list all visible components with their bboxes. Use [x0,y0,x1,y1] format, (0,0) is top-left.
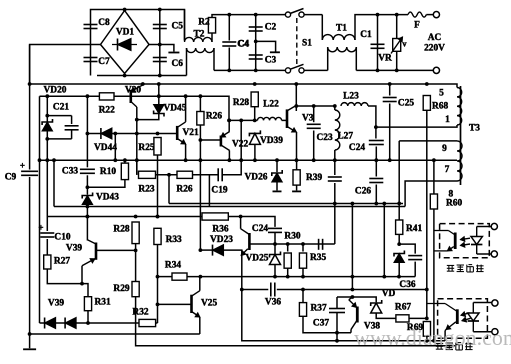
svg-text:VD44: VD44 [94,143,117,153]
svg-text:V36: V36 [265,298,281,308]
svg-text:R39: R39 [306,173,322,183]
wire V25 collector column [199,140,203,252]
wire V38 emitter wire [337,295,376,302]
wire base net to L22 node [131,94,229,120]
wire C26 left to L1 [333,183,337,244]
resistor R36 [202,213,229,235]
wire feed column x39 [38,96,42,323]
svg-text:R10: R10 [100,167,116,177]
inductor L22 [258,100,282,121]
wire C37 block stub to line A [336,333,338,341]
switch S1 link [297,18,312,66]
svg-text:C2: C2 [265,23,277,33]
inductor winding T3 winding 5-1 [457,88,462,126]
wire V3 node line [296,104,336,108]
svg-text:C1: C1 [360,30,372,40]
label pin 9 [442,144,447,154]
inductor T2 [185,30,213,42]
wire R28b to R29 [135,244,137,282]
wire R26 to C19 [193,174,219,176]
svg-text:V39: V39 [48,299,64,309]
optocoupler U1 phototransistor [434,231,455,251]
wire bridge left output to left rail [30,45,101,84]
resistor R26 lower [176,171,192,194]
capacitor on y244 [319,239,323,250]
wire T2 primary top lead [184,10,186,41]
wire V20 emitter to rail [141,84,143,86]
capacitor C3 [249,55,277,66]
wire U2 emitter to line A [444,331,446,341]
resistor R68 [423,95,448,112]
svg-text:C5: C5 [172,22,184,32]
wire C36 bottom [414,262,416,277]
inductor None [187,48,215,53]
wire R37 bottom [303,316,351,332]
wire V22 base [200,139,221,141]
wire L22 left [227,119,257,123]
svg-text:C9: C9 [5,173,17,183]
inductor winding T3 winding 9-7 [457,141,462,181]
svg-text:R41: R41 [406,224,422,234]
wire C10 to R27 [46,239,48,255]
wire VD26 stub [276,182,278,190]
wire R35 stub [301,242,305,251]
capacitor C26 [328,177,372,197]
wire bridge right output [149,43,174,52]
wire C2 C3 branch [255,15,257,71]
wire R39 branch [296,160,298,170]
wire R31 to diode line [86,311,90,325]
fuse F [408,12,433,31]
wire x352 column [351,202,355,290]
wire left vertical rail lower [28,177,32,348]
wire between diodes [56,322,66,324]
wire C24 branch [375,127,377,138]
label pin 7 [445,165,450,175]
wire diode line to R32 [76,322,139,324]
wire C2 C3 midpoint to chassis [254,40,276,52]
varistor VR [378,15,406,71]
svg-text:R33: R33 [166,235,182,245]
svg-text:C3: C3 [265,56,277,66]
wire C25 branch [389,84,391,96]
inductor L23 [341,92,368,106]
wire T3 pin9 lead [399,140,457,142]
wire V21 emitter [184,144,188,162]
svg-text:C33: C33 [62,167,78,177]
wire C26 right branch [375,160,377,176]
svg-text:T2: T2 [194,30,205,40]
wire C1 branch [377,15,379,71]
resistor R27 [44,255,71,270]
svg-text:VD26: VD26 [245,173,268,183]
capacitor C5 [153,22,183,32]
wire V39 emitter drop [81,266,83,284]
svg-text:R27: R27 [54,257,70,267]
wire VD43 to lines [86,205,90,241]
wire V39 collector drop [86,239,88,242]
terminal U2 top [492,300,498,306]
watermark [354,325,511,350]
wire R30 stub [286,242,290,251]
wire rail to T3 pin5 [449,84,457,88]
svg-text:R29: R29 [113,284,129,294]
wire V23 line W2 [242,289,268,291]
wire R35 bottom [302,268,304,276]
svg-text:R23: R23 [138,185,154,195]
svg-text:C37: C37 [313,319,329,329]
resistor R69 [407,321,431,336]
terminal AC line [433,12,439,18]
svg-text:R25: R25 [138,143,154,153]
svg-text:+: + [38,223,43,233]
wire C19 to bus [222,158,243,175]
wire C10 column [46,217,48,232]
wire main positive rail [28,82,449,86]
resistor R10 [100,163,129,180]
transistor V38 [349,300,381,332]
wire bus left drop x54 [52,158,56,206]
wire main bus [40,159,434,161]
wire C37 bottom [335,313,339,335]
wire C33 to VD43 [86,175,88,194]
svg-text:7: 7 [445,165,450,175]
switch S1 top pole [285,9,304,18]
capacitor C [222,40,249,50]
wire R27 to V39 emitter wire [47,269,84,286]
svg-text:VD43: VD43 [96,193,119,203]
svg-text:L23: L23 [343,92,359,102]
wire V38 collector down [350,330,352,333]
wire L3 right [228,215,275,227]
svg-text:C8: C8 [98,18,110,28]
resistor R28 [233,92,258,109]
resistor R23 [138,171,155,194]
resistor R39 [293,169,322,185]
ground left rail [23,348,36,350]
wire S1 to T1 top [304,14,322,16]
capacitor C36 [399,256,422,291]
wire C24 to bus [374,147,378,163]
wire VD25 to wire276 [274,265,276,277]
wire V39 base line [96,249,138,253]
capacitor C8 [84,18,111,28]
wire T2 secondary bottom lead [213,48,215,70]
wire R60 column to opto [433,209,435,341]
capacitor C23 [307,124,333,143]
label 220V [424,44,445,54]
optocoupler U1 led [471,227,482,255]
svg-text:C26: C26 [355,187,371,197]
capacitor C1 [360,30,384,48]
optocoupler U2 phototransistor [427,304,457,331]
capacitor C19 [211,168,227,195]
terminal AC neutral [433,67,439,73]
wire R33 column mid [156,245,160,324]
svg-text:V25: V25 [201,298,217,308]
diode VD44 [94,128,117,153]
wire C23 to bus [312,131,316,163]
svg-text:www.diangon.com: www.diangon.com [354,325,511,350]
wire V3 emitter [295,132,299,162]
wire V23 base wire [248,243,250,245]
svg-text:R67: R67 [395,303,411,313]
terminal U1 top [491,223,497,229]
resistor R26 [197,111,223,125]
bridge rectifier VD1 [101,8,150,78]
terminal U2 bottom [492,329,498,335]
zener diode VD20 [42,119,52,131]
wire long mid line [187,275,415,279]
wire R60 column top [433,160,435,194]
wire VD41 bottom [398,263,400,277]
wire x115 to bus [113,134,117,163]
wire bottom left wire [30,333,200,335]
inductor None [328,47,357,52]
switch S1 bottom pole [285,64,304,73]
inductor winding L27 [335,110,354,150]
resistor R29 [113,281,139,297]
wire V38 emitter up [349,297,353,300]
wire R26 top stub [199,96,201,111]
svg-text:v: v [403,39,407,48]
wire T1 bottom left lead [327,47,329,70]
svg-text:220V: 220V [424,44,445,54]
end stub VD26 [273,190,282,192]
svg-text:VD25: VD25 [246,254,269,264]
wire R37 stub [302,290,304,303]
svg-text:VD20: VD20 [44,85,67,95]
label control 2 (CJK) [436,343,473,350]
svg-text:C10: C10 [54,233,70,243]
wire VD23 to V23 emitter node [224,250,242,256]
diode VD23 [210,235,233,255]
svg-text:R30: R30 [284,232,300,242]
wire C5 C6 branch [158,8,162,78]
svg-text:V21: V21 [183,128,199,138]
wire C33 column [86,96,90,167]
wire low diode line [40,322,45,324]
resistor R67 [395,303,411,322]
svg-text:C21: C21 [53,103,69,113]
capacitor C25 [383,98,415,109]
transistor V3 [287,105,314,132]
wire V21 base line [87,133,101,135]
resistor R25 [138,137,161,155]
wire U2 led bottom to terminal [473,331,492,333]
wire bridge box bottom rail [97,75,187,77]
svg-text:R35: R35 [310,253,326,263]
svg-text:V22: V22 [232,140,248,150]
wire L22 to V3 base [282,119,287,121]
wire W2 right [277,288,429,321]
wire L22 node to bus column [239,119,243,161]
svg-text:V3: V3 [302,114,314,124]
svg-text:R36: R36 [212,225,228,235]
wire C37 top [336,297,338,309]
chassis ground at C3 [270,51,280,53]
label pin 1 [445,115,450,125]
wire y244 [249,243,334,245]
wire V3 collector column [294,84,298,111]
wire pin9 column [397,141,401,205]
wire T1 top right lead [355,13,408,40]
svg-text:R28: R28 [113,225,129,235]
wire L27 to bus [333,150,337,162]
optocoupler U2 light arrows [461,312,471,322]
svg-text:R2: R2 [198,18,210,28]
resistor R60 [430,194,462,210]
transistor V22 [221,132,249,151]
zener diode VD at R41 [394,251,404,263]
wire T2 primary bottom lead [186,48,188,76]
capacitor C37 [313,309,345,329]
svg-text:R68: R68 [432,102,448,112]
wire T2 secondary top lead to R2 [211,33,213,42]
svg-text:VD23: VD23 [210,235,233,245]
wire C25 to bus [388,104,392,163]
wire T1 top left lead [321,15,323,40]
wire C23 branch [313,106,315,122]
wire U2 led top to terminal [473,302,492,304]
wire AC bottom rail left [214,69,288,73]
wire pin1 line [374,125,451,129]
wire V20 base [114,95,131,97]
svg-text:V20: V20 [125,85,141,95]
resistor R31 [84,296,111,311]
capacitor C21 [47,103,78,139]
capacitor C33 [62,167,95,177]
wire R68 column down [426,110,428,318]
zener diode VD25 [270,252,281,265]
capacitor C10 [38,223,70,243]
wire U1 led bottom to terminal [477,253,492,255]
wire R41 column [398,203,400,220]
wire bottom line B [136,345,455,347]
wire V23 collector [240,217,242,229]
svg-text:T3: T3 [469,124,480,134]
svg-text:C4: C4 [238,40,250,50]
wire R23 feed [136,160,138,175]
wire T3 pin7 lead [405,181,457,207]
wire R67 to R69 node [409,317,427,319]
resistor R30 [284,232,301,269]
transistor V23 [241,229,269,264]
wire V22 collector down [228,151,232,163]
label control 1 (CJK) [447,265,484,272]
wire line L3 [47,215,202,219]
zener diode VD43 [82,193,119,205]
wire T3 center tap to bus [432,158,457,162]
svg-text:C7: C7 [98,57,110,67]
svg-text:R28: R28 [233,98,249,108]
resistor R33 [154,228,182,245]
svg-text:C24: C24 [252,224,268,234]
svg-text:R22: R22 [99,105,115,115]
zener diode VD26 [245,170,283,183]
wire R39 stub [296,185,298,190]
wire R30 bottom [287,268,289,276]
wire VD25 top stub [274,244,276,255]
wire x384 column [382,202,386,277]
wire V21 base line right [112,132,177,136]
zener diode VD39 [249,130,283,145]
resistor R37 [299,302,327,316]
svg-text:F: F [414,21,420,31]
wire R25 R33 column upper [156,155,160,218]
wire VD20 column [45,94,49,216]
wire VD23 line [200,249,212,251]
transistor V21 [177,122,199,144]
svg-text:C36: C36 [399,280,415,290]
resistor R32 [132,308,155,327]
svg-text:VD: VD [382,289,396,299]
wire R32 to column [156,322,158,324]
wire R34 line [158,276,173,278]
svg-text:R26: R26 [206,112,222,122]
wire VD26 branch [275,158,279,172]
svg-text:S1: S1 [302,39,312,49]
wire V23 emitter column [240,256,445,343]
inductor T1 [322,24,355,40]
wire bridge box top rail [91,10,185,76]
terminal U1 bottom [491,251,497,257]
svg-text:R26: R26 [176,185,192,195]
wire C26 right to L1 [374,185,378,206]
svg-text:+: + [20,161,25,171]
label pin 5 [439,89,444,99]
capacitor C4 [229,15,249,71]
wire T3 pin1 stub [451,125,457,127]
wire VD bottom to R67 [376,313,396,318]
wire R28 to L22 node [253,107,257,123]
wire V25 base [158,303,192,305]
wire left vertical rail [29,45,31,170]
wire R69 to line A [426,336,428,341]
wire T1 bottom right lead [355,47,357,70]
svg-text:C6: C6 [172,59,184,69]
capacitor C [369,179,383,183]
svg-text:C25: C25 [398,99,414,109]
wire VD45 branch [158,84,160,104]
label AC [428,33,442,43]
resistor R28 lower [113,222,139,244]
transformer T3 core [460,86,462,185]
label T3 [469,124,480,134]
svg-text:9: 9 [442,144,447,154]
label pin 8 [449,190,454,200]
diode V39 diode b [65,318,76,329]
wire V22 emitter up [227,119,231,132]
wire line L2 [54,206,405,208]
svg-text:T1: T1 [336,24,347,34]
wire L3 left drop [46,216,48,218]
wire R26b corner down [208,175,210,207]
svg-text:R60: R60 [446,199,462,209]
capacitor C24 lower [252,224,282,234]
svg-text:1: 1 [445,115,450,125]
label VD20 [44,85,67,95]
optocoupler U2 box [438,299,488,338]
wire R2 top to AC top rail [212,13,288,18]
wire x169 to L1 [168,175,170,204]
wire V25 emitter [199,317,201,334]
wire VD39 to bus [253,144,257,162]
wire R10 to VD43 node [86,180,125,190]
diode V39 diode a [45,318,56,329]
wire V21 collector riser [185,96,187,122]
transistor V20 [125,85,141,107]
